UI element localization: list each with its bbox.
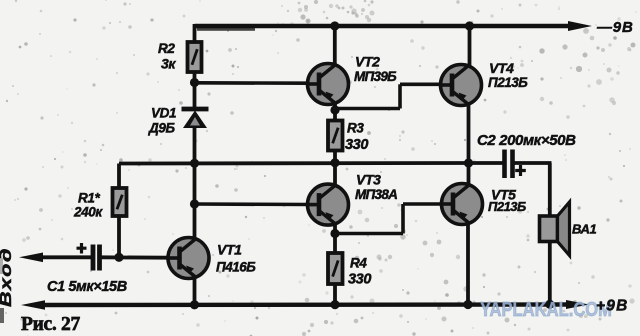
capacitor C2 bbox=[505, 150, 526, 179]
svg-text:+9В: +9В bbox=[596, 298, 628, 315]
svg-text:VT1: VT1 bbox=[217, 242, 242, 258]
junction node output bbox=[464, 158, 473, 167]
transistor VT5 P213B bbox=[442, 184, 483, 225]
capacitor C1 bbox=[77, 243, 100, 271]
svg-text:330: 330 bbox=[348, 272, 371, 288]
transistor VT2 MP39B bbox=[308, 64, 349, 105]
arrow input lower bbox=[21, 300, 45, 310]
svg-text:С2 200мк×50В: С2 200мк×50В bbox=[477, 132, 576, 149]
svg-text:ВА1: ВА1 bbox=[572, 222, 596, 237]
svg-text:VT2: VT2 bbox=[355, 54, 380, 70]
wire rail to R2 bbox=[193, 24, 197, 43]
wire output to C2 bbox=[469, 161, 504, 165]
junction node VT3-emitter / VT5-base bbox=[330, 229, 339, 238]
wire C2 to speaker corner bbox=[513, 161, 552, 165]
svg-text:Вход: Вход bbox=[0, 247, 15, 307]
wire input to C1 bbox=[40, 255, 91, 259]
wire output node to VT5 collector bbox=[467, 163, 471, 186]
arrow input upper bbox=[19, 253, 43, 263]
svg-text:П213Б: П213Б bbox=[488, 75, 528, 90]
transistor VT3 MP38A bbox=[308, 184, 349, 225]
resistor R3 body bbox=[328, 121, 343, 151]
svg-text:—9В: —9В bbox=[596, 19, 634, 36]
svg-text:П213Б: П213Б bbox=[488, 199, 526, 214]
svg-text:С1 5мк×15В: С1 5мк×15В bbox=[47, 279, 127, 295]
wire VT5 emitter to bottom rail bbox=[466, 222, 470, 305]
svg-text:VT3: VT3 bbox=[356, 172, 381, 188]
svg-text:МП39Б: МП39Б bbox=[354, 69, 397, 84]
wire step horizontal VT2-VT4 bbox=[335, 107, 400, 111]
resistor R4 body bbox=[328, 253, 343, 284]
wire to VT4 base bbox=[400, 83, 442, 87]
wire VD1 to mid rail bbox=[193, 126, 197, 164]
wire VT1 emitter to bottom rail bbox=[193, 276, 197, 305]
wire mid rail bbox=[119, 161, 469, 165]
svg-text:330: 330 bbox=[345, 137, 368, 153]
junction node bottom rail VT1 bbox=[190, 300, 199, 309]
resistor R2 body bbox=[188, 42, 202, 72]
wire step horizontal VT3-VT5 bbox=[335, 232, 403, 236]
svg-text:R3: R3 bbox=[347, 121, 364, 136]
transistor VT4 P213B bbox=[441, 65, 482, 106]
wire mid rail to R1 bbox=[117, 164, 121, 190]
junction node VT1-collector / VT3-base bbox=[190, 199, 199, 208]
wire corner down to speaker bbox=[548, 163, 552, 217]
svg-text:VD1: VD1 bbox=[151, 106, 176, 121]
junction node mid rail R3/VT3 bbox=[330, 158, 339, 167]
junction node VT2-emitter / VT4-base bbox=[330, 105, 339, 114]
resistor R1 body bbox=[113, 188, 127, 216]
wire VT4 to output node bbox=[467, 103, 471, 164]
svg-text:П416Б: П416Б bbox=[216, 260, 256, 275]
junction node top rail VT2 bbox=[330, 21, 339, 30]
svg-text:R1*: R1* bbox=[78, 191, 100, 206]
speaker BA1 bbox=[540, 202, 570, 256]
arrow +9V rail bbox=[566, 300, 589, 309]
svg-text:R4: R4 bbox=[350, 256, 367, 271]
wire R4 to bottom rail bbox=[333, 283, 337, 305]
svg-text:Д9Б: Д9Б bbox=[148, 121, 175, 136]
junction node bottom rail speaker bbox=[545, 300, 554, 309]
arrow -9V rail bbox=[568, 21, 592, 31]
wire to VT5 base bbox=[403, 202, 443, 206]
diode VD1 bbox=[182, 109, 209, 128]
junction node R2/VD1/VT2-base bbox=[190, 78, 199, 87]
wire VT1 collector up bbox=[193, 163, 197, 240]
wire step vertical VT2-VT4 bbox=[398, 84, 402, 108]
wire mid rail to VT3 collector bbox=[333, 163, 337, 187]
wire R1 to input node bbox=[117, 215, 121, 258]
svg-text:R2: R2 bbox=[158, 41, 175, 56]
junction node top rail VT4 bbox=[465, 21, 474, 30]
junction node bottom rail VT5 bbox=[463, 300, 472, 309]
svg-text:240к: 240к bbox=[73, 205, 103, 220]
wire R2 to node bbox=[193, 72, 197, 84]
wire node to VT2 base bbox=[195, 81, 309, 85]
wire top rail to VT2 bbox=[333, 26, 337, 66]
junction node bottom rail R4 bbox=[330, 300, 339, 309]
svg-text:Рис. 27: Рис. 27 bbox=[21, 314, 81, 335]
junction node mid rail / VT1 collector bbox=[190, 159, 199, 168]
wire R3 to mid rail bbox=[333, 150, 337, 164]
junction node C1/R1/VT1-base bbox=[114, 253, 123, 262]
transistor VT1 P416B bbox=[168, 238, 209, 279]
svg-text:YAPLAKAL.COM: YAPLAKAL.COM bbox=[480, 299, 612, 321]
wire top rail to VT4 bbox=[468, 26, 472, 67]
wire node to VD1 bbox=[193, 83, 197, 110]
svg-text:3к: 3к bbox=[161, 56, 176, 72]
svg-text:МП38А: МП38А bbox=[355, 187, 397, 202]
wire C1 to VT1 base bbox=[100, 255, 169, 259]
wire VT2 emitter to R3 bbox=[333, 102, 337, 121]
wire VT3 emitter to R4 bbox=[333, 223, 337, 254]
wire step vertical VT3-VT5 bbox=[401, 204, 405, 234]
wire to VT3 base bbox=[195, 202, 309, 206]
svg-text:VT4: VT4 bbox=[489, 60, 514, 76]
wire bottom rail +9V bbox=[40, 302, 570, 307]
wire speaker to bottom rail bbox=[548, 242, 552, 306]
wire top rail -9V bbox=[195, 24, 576, 28]
